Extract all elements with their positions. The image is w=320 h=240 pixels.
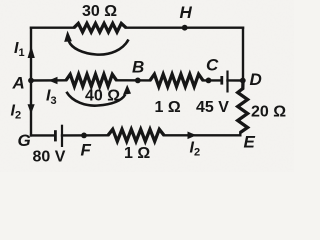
svg-text:G: G bbox=[18, 131, 31, 150]
svg-text:80 V: 80 V bbox=[33, 149, 66, 166]
node A (junction dot) bbox=[28, 78, 34, 84]
battery 45 V: long plate (D side) bbox=[226, 71, 228, 93]
wire bottom: battery 80V to F to resistor bbox=[62, 134, 108, 136]
svg-text:C: C bbox=[206, 56, 219, 75]
loop direction arc (under 30 ohm), arrowhead at left end pointing up bbox=[69, 40, 129, 55]
svg-text:20 Ω: 20 Ω bbox=[251, 103, 286, 120]
current arrow I1 (left wire, pointing up) bbox=[28, 46, 35, 58]
svg-text:A: A bbox=[12, 73, 25, 92]
wire right: top corner down to D bbox=[242, 28, 244, 81]
node H (junction dot) bbox=[182, 25, 188, 31]
svg-text:H: H bbox=[180, 3, 193, 22]
current arrow I3 (middle wire, pointing left toward A) bbox=[49, 77, 58, 85]
svg-text:40 Ω: 40 Ω bbox=[85, 88, 120, 105]
node B (junction dot) bbox=[135, 78, 141, 84]
wire middle: A to battery 45V bbox=[31, 79, 66, 82]
battery 80 V: short plate (G side) bbox=[54, 130, 57, 141]
resistor 30 ohm (top wire) bbox=[74, 23, 126, 32]
current arrow I2 (left wire, pointing down) bbox=[28, 104, 35, 114]
current arrow I2 (bottom wire, pointing right toward E) bbox=[188, 132, 197, 140]
loop direction arc (under 40 ohm), arrowhead at right end pointing up bbox=[66, 92, 125, 106]
battery 80 V: long plate (F side) bbox=[61, 125, 63, 147]
node F (junction dot) bbox=[81, 133, 87, 139]
wire bottom: G to battery 80V bbox=[31, 134, 55, 136]
svg-text:30 Ω: 30 Ω bbox=[82, 3, 117, 20]
resistor 1 ohm (bottom wire) bbox=[108, 129, 164, 141]
svg-text:E: E bbox=[244, 132, 256, 151]
wire middle: battery 45V to D bbox=[228, 79, 244, 81]
node D (junction dot) bbox=[240, 78, 246, 84]
svg-text:D: D bbox=[250, 70, 262, 89]
wire left: top corner down through A to G bbox=[30, 28, 32, 136]
svg-text:1 Ω: 1 Ω bbox=[155, 99, 181, 116]
battery 45 V: short plate (C side) bbox=[220, 76, 223, 85]
resistor 20 ohm (right side, vertical) bbox=[238, 81, 248, 133]
svg-text:B: B bbox=[132, 57, 144, 76]
wire bottom: resistor to E corner bbox=[164, 134, 240, 136]
wire right: E corner up to 20 ohm resistor bbox=[239, 133, 241, 136]
svg-text:45 V: 45 V bbox=[196, 99, 229, 116]
node C (junction dot) bbox=[206, 78, 212, 84]
resistor 40 ohm (middle wire) bbox=[66, 74, 117, 86]
resistor 1 ohm (middle wire) bbox=[150, 74, 203, 86]
svg-text:1 Ω: 1 Ω bbox=[124, 145, 150, 162]
wire top: left corner to H to right corner bbox=[31, 27, 74, 29]
svg-text:F: F bbox=[81, 141, 92, 160]
